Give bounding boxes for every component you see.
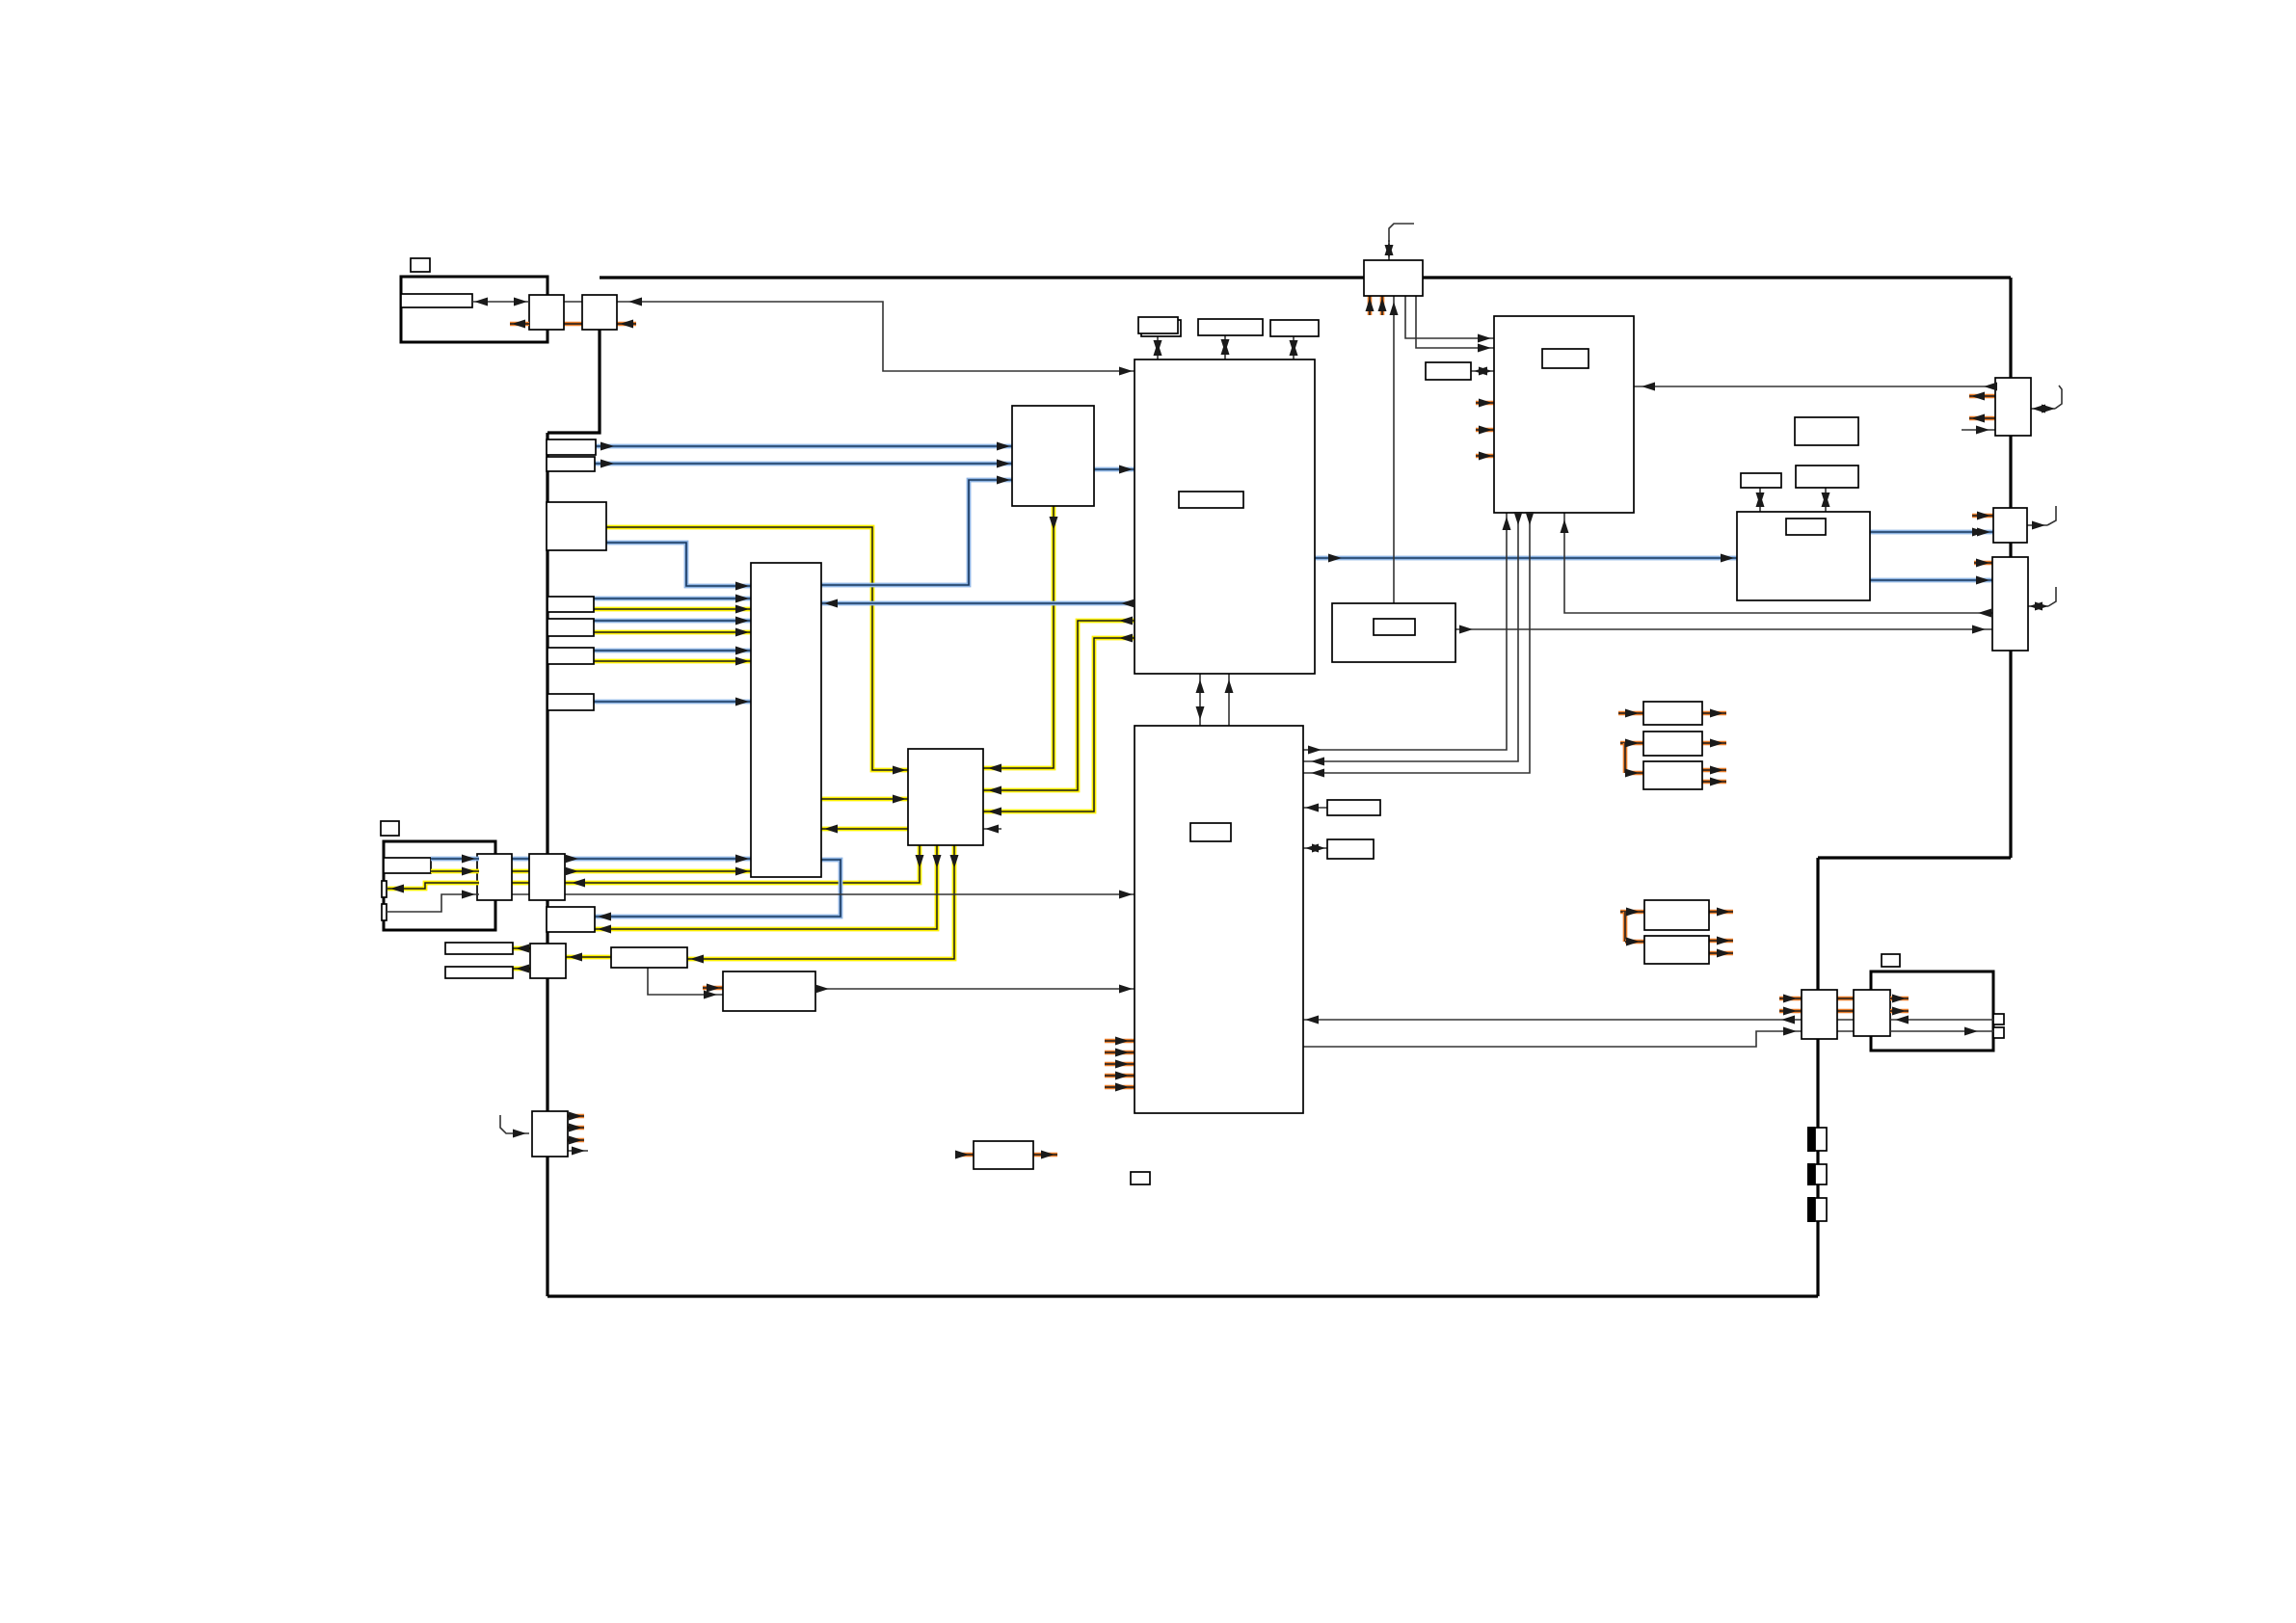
connector J2 [1993, 508, 2027, 543]
stub Q1 left [1620, 910, 1644, 915]
wire mux to E yellow [595, 845, 937, 929]
stub K2 right a overlay [1890, 997, 1909, 1001]
codec top box CDC [1795, 417, 1858, 445]
wire IC1 to mux yellow a [983, 621, 1135, 790]
stub P1 left [1618, 711, 1643, 716]
wire IC2-SB2 double arrow [1303, 847, 1327, 849]
display D1 [445, 943, 513, 954]
stub J2 [1972, 514, 1993, 519]
wire IC1 to mux yellow b [983, 638, 1135, 811]
wire J1 pigtail [2031, 408, 2055, 410]
connector K2 [1854, 990, 1890, 1036]
connector A [477, 854, 512, 900]
display D2 [445, 967, 513, 978]
wire S3 to IC0 blue [606, 543, 751, 586]
connector C [530, 944, 566, 978]
wire ML yellow overlay [431, 869, 479, 874]
terminal sq1 [1993, 1014, 2004, 1024]
memory box SM1 [1138, 317, 1178, 333]
wire pin2 to A overlay [387, 894, 479, 912]
codec top box CDB [1796, 466, 1858, 488]
stub T1 left overlay [510, 322, 529, 327]
outer right lower border [1816, 858, 1819, 1296]
wire IC1-IC2 bus b [1228, 674, 1230, 726]
block G [723, 971, 815, 1011]
wire A to pin1 yellow overlay [387, 883, 479, 889]
wire IC0 to QFP blue [821, 480, 1012, 585]
wire T5 to OSC vertical [1393, 296, 1395, 603]
stub H c [568, 1138, 584, 1143]
stub R right [1033, 1153, 1057, 1157]
power Q2 [1644, 936, 1709, 964]
wire T1-T2 link [564, 301, 582, 303]
stub H a [568, 1114, 584, 1119]
wire G to IC2 [815, 988, 1135, 990]
input block box4 [547, 694, 594, 710]
mux MX [908, 749, 983, 845]
label rect IC2 [1190, 823, 1231, 841]
wire J2 pigtail hook [2047, 506, 2056, 525]
wire codec to J3 blue [1870, 578, 1992, 583]
power block T5 [1364, 260, 1423, 296]
stub Q2 right b [1709, 951, 1733, 956]
wire QFP to IC1 blue [1094, 467, 1135, 472]
buffer QFP [1012, 406, 1094, 506]
label rect IC1 [1179, 492, 1243, 508]
outer border jog [1818, 856, 2011, 859]
stub IC2 c [1105, 1062, 1135, 1067]
wire S3 to mux yellow [606, 527, 908, 770]
wire S2 to QFP [595, 462, 1012, 466]
stub P2 right [1702, 741, 1726, 746]
wire K2 to sq1 overlay [1890, 1019, 1993, 1021]
left spine [546, 433, 548, 1296]
wire mux to B to pin1 yellow [387, 845, 920, 889]
wire pin2 to IC2 [387, 894, 1135, 912]
main IC1 [1135, 359, 1315, 674]
wire T5 pigtail stem [1388, 240, 1390, 260]
input block box2 [547, 619, 594, 636]
connector J1 [1995, 378, 2031, 436]
connector B [529, 854, 565, 900]
wire box1 yellow [594, 607, 751, 612]
wire J1 small input [1962, 429, 1995, 431]
wire RF to J1 [1634, 386, 1995, 387]
wire ML blue overlay [431, 857, 479, 862]
connector H [532, 1111, 568, 1157]
terminal sq2 [1993, 1027, 2004, 1038]
page ref square mid-left [381, 821, 399, 836]
outer right border [2009, 278, 2012, 858]
connector K1 [1802, 990, 1837, 1039]
wire box3 blue [594, 649, 751, 653]
wire CDA double arrow [1759, 488, 1761, 512]
wire T2 to IC1 [617, 302, 1135, 371]
codec top box CDA [1741, 473, 1781, 488]
side box SB1 [1327, 800, 1380, 815]
ferrite bead FB3 [1807, 1197, 1815, 1222]
label rect codec [1786, 519, 1826, 535]
wire box4 blue [594, 700, 751, 705]
selector IC0 [751, 563, 821, 877]
key block S1 [547, 439, 596, 455]
stub IC2 d [1105, 1074, 1135, 1078]
wire box3 yellow [594, 659, 751, 664]
connector J3 [1992, 557, 2028, 651]
wire codec to J2 blue [1870, 530, 1993, 535]
wire IC1-IC2 bus a [1199, 674, 1201, 726]
label rect OSC [1374, 619, 1415, 635]
connector T1 [529, 295, 564, 330]
cassette inner box [384, 858, 431, 873]
stub RF b [1476, 428, 1494, 433]
wire IC1 to codec blue [1315, 556, 1737, 561]
wire C to D1 yellow [513, 946, 530, 951]
stub G left [703, 986, 723, 991]
connector T2 [582, 295, 617, 330]
wire CDB double arrow [1825, 488, 1827, 512]
stub T5 pin a [1368, 296, 1373, 315]
wire J2 pigtail [2027, 524, 2047, 526]
block E [547, 907, 595, 932]
wire mux right stub [983, 828, 1001, 830]
wire box1 blue [594, 597, 751, 601]
wire IC1 top bus c [1293, 336, 1295, 359]
input block box1 [547, 597, 594, 612]
wire IC2 to TB sq1 [1303, 1019, 1993, 1021]
stub H b [568, 1126, 584, 1131]
stub K1 a [1779, 997, 1802, 1001]
page ref square bottom-right [1882, 954, 1900, 967]
sub IC2 [1135, 726, 1303, 1113]
wire J3 pigtail hook [2048, 587, 2056, 606]
stub IC2 a [1105, 1039, 1135, 1044]
wire H output stub [568, 1150, 588, 1152]
power P3 [1643, 761, 1702, 789]
wire J1 pigtail hook [2055, 386, 2062, 409]
stub P3 right a [1702, 768, 1726, 773]
oscillator OSC [1332, 603, 1455, 662]
tuner block S3 [547, 502, 606, 550]
wire S1 to QFP [596, 444, 1012, 449]
CD mechanism inner box [401, 294, 472, 307]
wire H pigtail [500, 1115, 529, 1133]
stub IC2 b [1105, 1051, 1135, 1055]
wire T5 to RF a [1405, 296, 1494, 338]
cassette unit thick box [384, 841, 495, 930]
wire F to C yellow [566, 955, 611, 960]
wire IC2 to SB1 [1303, 807, 1327, 809]
wire IC2 to TB sq2 [1303, 1031, 1993, 1047]
wire T5 to RF b [1416, 296, 1494, 348]
wire RFS double arrow [1471, 370, 1494, 372]
stub P1 right [1702, 711, 1726, 716]
wire IC0 to E blue [595, 860, 841, 917]
wire C to D2 yellow [513, 967, 530, 971]
CD player unit thick box [401, 277, 547, 342]
wire IC1 top bus a [1157, 336, 1159, 359]
wire RF to J3 net [1564, 513, 1992, 613]
memory box SM1 back [1141, 320, 1181, 336]
regulator R [974, 1141, 1033, 1169]
RF block [1494, 316, 1634, 513]
stub J3 [1974, 561, 1992, 566]
stub Q2 right a [1709, 939, 1733, 944]
ferrite bead FB1 [1807, 1127, 1815, 1152]
side box SB2 [1327, 839, 1374, 859]
stub K2 right b overlay [1890, 1009, 1909, 1014]
wire J3 pigtail [2028, 605, 2048, 607]
wire OSC to J3 [1455, 628, 1992, 630]
memory box SM2 [1198, 319, 1263, 335]
stub K1-K2 b [1837, 1009, 1854, 1014]
stub P3 right b [1702, 780, 1726, 785]
label rect RF [1542, 349, 1589, 368]
stub J1 a [1969, 394, 1995, 399]
wire mux to F yellow [687, 845, 954, 959]
wire ML to IC0 yellow [431, 869, 751, 874]
stub K1-K2 a [1837, 997, 1854, 1001]
stub Q1-Q2 link [1623, 912, 1628, 942]
stub RF c [1476, 454, 1494, 459]
codec block CD [1737, 512, 1870, 600]
key block S2 [547, 457, 595, 471]
wire K2 to sq2 overlay [1890, 1030, 1993, 1032]
input block box3 [547, 648, 594, 664]
spine top jog [547, 330, 600, 433]
power Q1 [1644, 900, 1709, 930]
wire IC1 to IC0 blue [821, 601, 1135, 606]
stub T1-T2 [564, 322, 582, 327]
memory box SM3 [1270, 320, 1319, 336]
outer top border [600, 276, 2011, 279]
power P1 [1643, 702, 1702, 725]
RF side box RFS [1426, 362, 1471, 380]
stub T1 left [510, 322, 529, 327]
speaker unit thick box TB [1871, 971, 1993, 1051]
wire TL inner double arrow overlay [472, 301, 529, 303]
wire ML to IC0 blue [431, 857, 751, 862]
stub P2 left [1620, 741, 1643, 746]
pin box 1 [382, 881, 387, 897]
wire QFP to mux yellow [983, 506, 1054, 768]
stub P2-P3 link [1623, 743, 1628, 773]
stub IC2 e [1105, 1085, 1135, 1090]
wire T5 pigtail hook [1389, 224, 1414, 242]
wire IC2 to RF pin1 [1303, 513, 1507, 750]
page ref square bottom-center [1131, 1172, 1150, 1184]
wire F to G [648, 968, 723, 995]
wire mux to IC0 yellow [821, 827, 908, 832]
wire IC0 to mux yellow [821, 797, 908, 802]
ferrite bead FB2 [1807, 1163, 1815, 1185]
wire box2 yellow [594, 630, 751, 635]
power P2 [1643, 732, 1702, 756]
wire RF to IC2 pin3 [1303, 513, 1530, 773]
stub Q1 right [1709, 910, 1733, 915]
stub RF a [1476, 401, 1494, 406]
stub P3 left [1625, 771, 1643, 776]
block F [611, 947, 687, 968]
stub J1 b [1969, 416, 1995, 421]
stub T5 pin b [1380, 296, 1385, 315]
wire double arrow TL [472, 301, 529, 303]
wire RF to IC2 pin2 [1303, 513, 1518, 761]
wire IC1 top bus b [1224, 335, 1226, 359]
wire box2 blue [594, 619, 751, 624]
outer bottom border [547, 1294, 1818, 1297]
stub R left [955, 1153, 974, 1157]
stub T2 right [617, 322, 636, 327]
page ref square top-left [411, 258, 430, 272]
stub K1 b [1779, 1009, 1802, 1014]
pin box 2 [382, 904, 387, 920]
stub Q2 left [1625, 940, 1644, 945]
